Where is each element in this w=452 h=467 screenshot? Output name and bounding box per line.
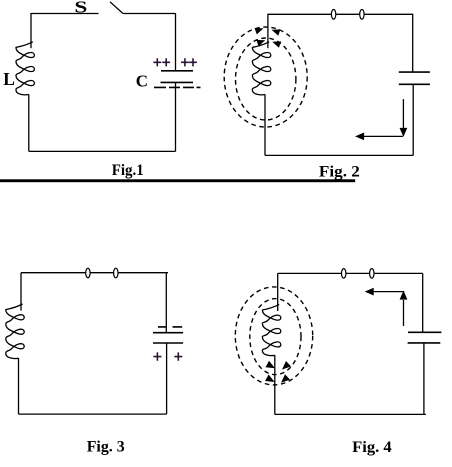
positive charge marks + + (Fig.3) (153, 352, 161, 360)
field arrowhead outer-left (Fig.4) (265, 375, 275, 383)
wire Fig.3 top (21, 272, 168, 274)
svg-text:L: L (3, 69, 15, 89)
connector ellipse 1 (Fig.2) (331, 10, 335, 20)
wire Fig.3 right lower (166, 343, 168, 414)
capacitor top plate (Fig.2) (399, 71, 430, 73)
wire Fig.2 top (268, 13, 413, 15)
wire Fig.2 left lower (264, 94, 266, 155)
current arrow up (Fig.4) (403, 300, 405, 326)
field arrowhead inner-right (Fig.4) (282, 361, 291, 370)
svg-text:Fig. 2: Fig. 2 (319, 163, 360, 180)
wire Fig.2 right lower (412, 84, 414, 155)
wire Fig.1 right upper (175, 13, 177, 71)
current arrow left (Fig.4) (372, 291, 404, 293)
field arrowhead inner-left (Fig.4) (266, 361, 276, 369)
wire Fig.3 right upper (165, 273, 167, 333)
connector ellipse 2 (Fig.4) (370, 269, 374, 279)
magnetic field line inner (Fig.4) (250, 299, 301, 375)
wire Fig.1 top-left segment (31, 13, 99, 15)
horizontal divider rule (0, 179, 355, 182)
svg-text:C: C (136, 71, 148, 90)
svg-text:Fig.1: Fig.1 (112, 162, 144, 179)
negative charge dashes on C (Fig.3) (158, 326, 182, 328)
capacitor top plate (Fig.3) (153, 332, 183, 334)
inductor coil (Fig.2) (252, 42, 270, 95)
positive charge marks ++ ++ on C (153, 58, 197, 66)
current arrow down (Fig.2) (402, 99, 404, 129)
wire Fig.1 right lower (175, 82, 177, 151)
wire Fig.2 right upper (412, 14, 414, 72)
inductor L (Fig.1 coil) (16, 42, 34, 95)
wire Fig.4 right lower (423, 343, 425, 415)
negative charge dashes on C (154, 86, 201, 88)
magnetic field line inner (Fig.2) (236, 38, 296, 120)
current arrow left (Fig.2) (362, 135, 403, 137)
inductor coil (Fig.4) (262, 304, 280, 355)
wire Fig.4 bottom (275, 413, 426, 415)
field arrowhead inner-left (Fig.2) (256, 40, 265, 46)
connector ellipse 1 (Fig.4) (342, 269, 346, 279)
wire Fig.4 left lower (274, 355, 276, 414)
capacitor bottom plate (Fig.4) (408, 342, 441, 344)
magnetic field line outer (Fig.2) (224, 27, 307, 127)
wire Fig.3 left upper (20, 273, 22, 311)
capacitor bottom plate (Fig.3) (153, 342, 183, 344)
wire Fig.4 left upper (277, 273, 279, 311)
svg-text:S: S (74, 0, 87, 17)
wire Fig.1 top-right segment (123, 13, 176, 15)
wire Fig.4 top (278, 272, 423, 274)
wire Fig.4 right upper (422, 273, 424, 332)
capacitor top plate (Fig.4) (408, 331, 441, 333)
connector ellipse 2 (Fig.3) (114, 268, 118, 278)
svg-text:Fig. 3: Fig. 3 (87, 439, 125, 456)
switch S blade (110, 2, 123, 14)
svg-text:Fig. 4: Fig. 4 (352, 439, 392, 456)
connector ellipse 1 (Fig.3) (86, 268, 90, 278)
capacitor C bottom plate (161, 81, 194, 83)
wire Fig.1 left upper (30, 13, 32, 48)
wire Fig.1 left lower (28, 94, 30, 151)
magnetic field line outer (Fig.4) (235, 287, 312, 385)
wire Fig.2 left upper (267, 14, 269, 49)
wire Fig.1 bottom (29, 150, 176, 152)
wire Fig.2 bottom (265, 154, 413, 156)
wire Fig.3 left lower (18, 358, 20, 414)
field arrowhead inner-right (Fig.2) (272, 41, 281, 47)
field arrowhead outer-left (Fig.2) (255, 28, 264, 34)
capacitor bottom plate (Fig.2) (399, 83, 430, 85)
capacitor C top plate (161, 70, 193, 72)
field arrowhead outer-right (Fig.2) (272, 29, 281, 35)
inductor coil (Fig.3) (6, 304, 24, 359)
field arrowhead outer-right (Fig.4) (281, 374, 290, 383)
wire Fig.3 bottom (19, 413, 167, 415)
connector ellipse 2 (Fig.2) (360, 10, 364, 20)
